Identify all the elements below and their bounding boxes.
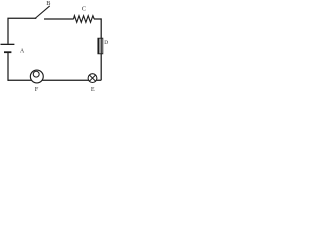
svg-text:E: E (91, 86, 95, 93)
svg-text:D: D (104, 40, 108, 46)
svg-text:A: A (20, 49, 25, 55)
svg-text:C: C (82, 6, 86, 13)
svg-text:B: B (46, 0, 50, 7)
svg-text:F: F (35, 86, 39, 93)
